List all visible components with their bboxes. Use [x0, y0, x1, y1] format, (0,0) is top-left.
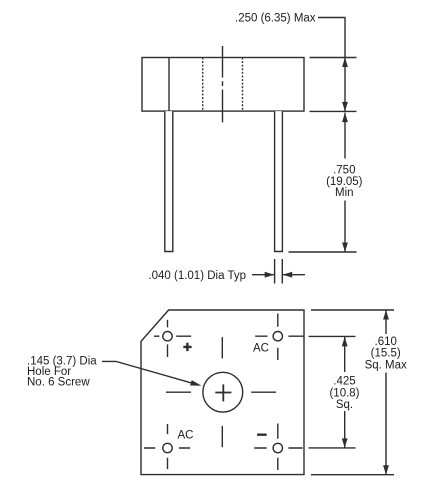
extension line body top: [310, 57, 357, 59]
arrowhead down .425: [342, 438, 348, 448]
lead hole circle bottom-right: [273, 443, 282, 452]
arrow right for lead dia: [252, 274, 274, 276]
centerline marks top-left circle: [154, 320, 191, 357]
arrow left for lead dia: [283, 274, 305, 276]
dimension line .610 lower: [385, 373, 387, 475]
extension line lead right edge: [281, 259, 283, 284]
dimension line .425 upper: [344, 337, 346, 372]
svg-text:.750: .750: [333, 165, 355, 177]
plus polarity label: [183, 343, 191, 351]
hidden hole edge left (dashed): [202, 58, 204, 112]
svg-text:.610: .610: [375, 336, 397, 348]
dimension line .750 upper segment: [344, 113, 346, 159]
svg-text:No. 6 Screw: No. 6 Screw: [27, 377, 90, 389]
lead hole circle top-left: [163, 332, 172, 341]
extension line lead tips: [289, 251, 357, 253]
dimension line .250: [344, 58, 346, 112]
body outline (side view): [142, 58, 304, 112]
svg-text:AC: AC: [178, 430, 194, 442]
lead hole circle top-right: [273, 332, 282, 341]
svg-text:.040 (1.01) Dia Typ: .040 (1.01) Dia Typ: [148, 270, 246, 282]
dimension line .610 upper: [385, 310, 387, 334]
svg-text:(10.8): (10.8): [329, 387, 359, 399]
arrowhead down at lead tips: [342, 243, 348, 253]
minus polarity label: [257, 434, 267, 436]
arrowhead up at body top: [342, 58, 348, 68]
arrowhead up .425: [342, 337, 348, 347]
extension line lead left edge: [274, 259, 276, 284]
svg-text:(19.05): (19.05): [326, 176, 363, 188]
vertical centerline (side view): [222, 46, 224, 122]
arrowhead down .610: [383, 465, 389, 475]
hidden hole edge right (dashed): [242, 58, 244, 112]
svg-text:AC: AC: [253, 342, 269, 354]
extension line body bottom: [310, 110, 357, 112]
extension line .610 bottom: [311, 474, 394, 476]
extension line .425 top: [309, 335, 356, 337]
dimension line .425 lower: [344, 411, 346, 448]
lead hole circle bottom-left: [163, 443, 172, 452]
extension line .425 bottom: [309, 447, 356, 449]
left lead: [165, 111, 173, 251]
arrowhead up at .750 top: [342, 113, 348, 123]
centerline marks bottom-right circle: [254, 424, 302, 471]
svg-text:.425: .425: [333, 375, 355, 387]
arrowhead up .610: [383, 310, 389, 320]
chamfer edge (side view vertical line): [168, 58, 170, 112]
svg-text:Min: Min: [335, 187, 354, 199]
package outline with chamfer (bottom view): [141, 310, 304, 475]
centerline marks mounting hole: [166, 337, 276, 447]
svg-text:(15.5): (15.5): [371, 348, 401, 360]
extension line .610 top: [311, 309, 394, 311]
svg-text:Sq.: Sq.: [336, 399, 353, 411]
leader for .250 dimension: [318, 18, 345, 58]
svg-text:Sq. Max: Sq. Max: [365, 359, 407, 371]
mounting hole circle: [203, 372, 243, 412]
svg-text:.250 (6.35) Max: .250 (6.35) Max: [235, 13, 316, 25]
right lead: [275, 111, 283, 251]
centerline marks top-right circle: [255, 314, 303, 361]
centerline marks bottom-left circle: [144, 424, 190, 469]
plus mark inside mounting hole: [215, 384, 231, 401]
dimension line .750 lower segment: [344, 201, 346, 253]
leader line for mounting hole note: [102, 361, 193, 383]
arrowhead down at body bottom: [342, 102, 348, 112]
